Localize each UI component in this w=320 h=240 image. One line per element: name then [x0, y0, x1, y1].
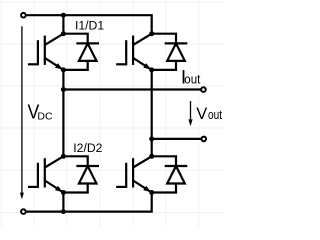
svg-text:DC: DC [37, 111, 53, 123]
wire: output top branch (left midpoint to terminal, crosses right trunk) [63, 88, 201, 90]
terminal: output + [201, 87, 206, 92]
svg-text:out: out [184, 71, 200, 86]
diode top-right diode (anti-parallel) [152, 34, 188, 70]
terminal: output - [202, 137, 207, 142]
node: emitter junction of IGBT I1 [61, 67, 66, 72]
background grid (decorative) [0, 0, 225, 227]
node: left midpoint tap to output [61, 87, 66, 92]
svg-text:out: out [208, 107, 222, 122]
arrow: VDC voltage reference arrow (down) [20, 26, 24, 199]
svg-text:V: V [196, 105, 207, 123]
node: emitter junction of bottom-right IGBT [149, 190, 154, 195]
terminal: DC+ input [21, 13, 26, 18]
transistor IGBT I1 [28, 34, 64, 70]
node: emitter junction of top-right IGBT [149, 67, 154, 72]
transistor bottom-right IGBT [116, 156, 152, 192]
node: right midpoint tap to output [149, 136, 154, 141]
diode D1 (anti-parallel) [63, 34, 99, 70]
node: left leg tap on bottom rail [61, 209, 66, 214]
svg-text:I2/D2: I2/D2 [73, 141, 102, 155]
svg-text:I1/D1: I1/D1 [75, 18, 104, 32]
wire: output bottom branch [152, 138, 202, 140]
transistor top-right IGBT [116, 34, 152, 70]
node: collector junction of bottom-right IGBT [149, 154, 154, 159]
wire: right leg midpoint trunk [151, 70, 153, 156]
diode D2 (anti-parallel) [63, 156, 99, 192]
wire: top DC+ rail [27, 15, 152, 34]
node: collector junction of IGBT I1 [61, 31, 66, 36]
diode bottom-right diode (anti-parallel) [152, 156, 188, 192]
wire: left leg bottom stub [62, 193, 64, 212]
terminal: DC- input [21, 209, 26, 214]
node: left leg tap on top rail [61, 13, 66, 18]
wire: bottom DC- rail [27, 193, 152, 212]
arrow: Vout voltage reference arrow (down) [188, 101, 192, 126]
node: emitter junction of IGBT I2 [61, 190, 66, 195]
wire: left leg top stub [62, 15, 64, 34]
node: collector junction of IGBT I2 [61, 154, 66, 159]
wire: left leg midpoint trunk [62, 70, 64, 156]
transistor IGBT I2 [28, 156, 64, 192]
node: collector junction of top-right IGBT [149, 31, 154, 36]
